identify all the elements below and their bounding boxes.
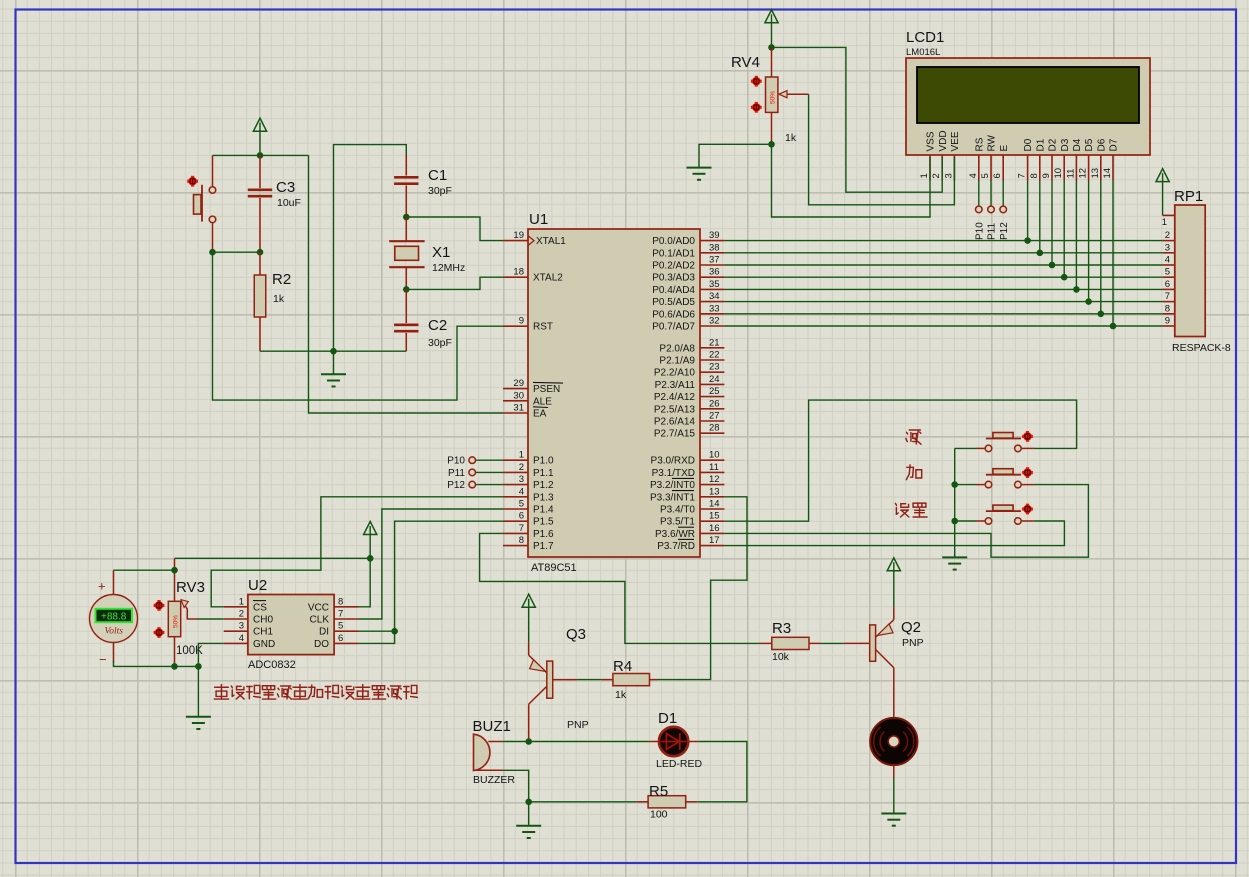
svg-text:30: 30 [513, 390, 524, 401]
pin 3 RP1 [1163, 252, 1175, 254]
svg-text:50%: 50% [770, 91, 777, 104]
svg-text:1: 1 [239, 596, 244, 607]
pin CH1 (3) U2 [224, 630, 248, 632]
lcd LCD1 body [906, 58, 1150, 155]
svg-text:P1.0: P1.0 [533, 456, 554, 467]
svg-text:U1: U1 [529, 211, 548, 228]
svg-text:RST: RST [533, 322, 553, 333]
pin P2.7/A15 (28) U1 [700, 432, 724, 434]
button JIA (increase) [976, 484, 985, 486]
svg-text:R3: R3 [772, 620, 791, 637]
pin P3.0/RXD (10) U1 [700, 459, 724, 461]
wire P3.5 net (U1 to button1 and Q3 drive) [724, 400, 1076, 521]
svg-text:35: 35 [709, 279, 720, 290]
wire P0.4 bus row [724, 288, 1162, 290]
pin P1.3 (4) U1 [503, 496, 528, 498]
wire P0.0 bus row [724, 240, 1162, 242]
svg-text:31: 31 [513, 403, 524, 414]
svg-text:7: 7 [1165, 291, 1170, 302]
svg-text:R5: R5 [649, 783, 668, 800]
wire R3 to Q2 base [821, 642, 844, 644]
svg-text:P0.1/AD1: P0.1/AD1 [652, 248, 695, 259]
svg-text:P2.0/A8: P2.0/A8 [659, 343, 695, 354]
svg-text:8: 8 [1029, 173, 1040, 178]
wire reset top rail [213, 154, 309, 156]
pin P0.4/AD4 (35) U1 [700, 288, 724, 290]
junction R5 row [525, 799, 532, 806]
ground (crystal circuit) [321, 374, 346, 386]
svg-text:11: 11 [1065, 169, 1076, 179]
svg-text:16: 16 [709, 523, 720, 534]
crystal X1 [389, 241, 424, 267]
svg-text:P0.6/AD6: P0.6/AD6 [652, 309, 695, 320]
capacitor C2 [405, 289, 407, 323]
svg-text:RESPACK-8: RESPACK-8 [1172, 342, 1231, 354]
pin P1.1 (2) U1 [503, 471, 528, 473]
wire R5 row left [529, 801, 637, 803]
power symbol VCC (Q2) [887, 558, 900, 571]
power symbol VCC (RP1) [1156, 169, 1169, 182]
svg-text:5: 5 [338, 621, 343, 632]
svg-text:RP1: RP1 [1174, 188, 1203, 205]
svg-text:P1.5: P1.5 [533, 517, 554, 528]
wire ground net vertical (C1 top) [334, 145, 407, 352]
svg-text:23: 23 [709, 362, 720, 373]
svg-text:P1.4: P1.4 [533, 505, 554, 516]
wire VCC rail to RV3 [175, 557, 371, 559]
junction RV3 bottom [171, 663, 178, 670]
pin P3.3/INT1 (13) U1 [700, 496, 724, 498]
svg-text:12MHz: 12MHz [432, 262, 465, 274]
junction DI/DO [391, 628, 398, 635]
junction D6/P0.6 [1098, 311, 1105, 318]
pin P1.6 (7) U1 [503, 532, 528, 534]
terminal P11 at LCD [990, 180, 992, 206]
svg-text:DO: DO [314, 639, 329, 650]
pin P0.0/AD0 (39) U1 [700, 240, 724, 242]
svg-text:P1.2: P1.2 [533, 480, 554, 491]
wire ground row (R2/C2 bottoms) [260, 350, 406, 352]
svg-text:C2: C2 [428, 317, 447, 334]
terminal P11 at U1 [476, 471, 503, 473]
pin P2.0/A8 (21) U1 [700, 347, 724, 349]
svg-text:+88.8: +88.8 [101, 611, 127, 622]
pin P2.3/A11 (24) U1 [700, 383, 724, 385]
target marker button2 [1022, 467, 1033, 478]
wire P0.7 bus row [724, 325, 1162, 327]
svg-text:P11: P11 [987, 223, 998, 240]
svg-text:LCD1: LCD1 [906, 29, 944, 46]
svg-text:Q3: Q3 [566, 626, 586, 643]
label jia (increase) [906, 465, 921, 480]
svg-text:33: 33 [709, 303, 720, 314]
pin RS (4) LCD1 [978, 155, 980, 181]
svg-text:1: 1 [919, 173, 930, 178]
pin P3.6/WR (16) U1 [700, 532, 724, 534]
svg-text:CH0: CH0 [253, 615, 273, 626]
junction button bottom [209, 249, 216, 256]
terminal P12 at LCD [1002, 180, 1004, 206]
svg-text:P12: P12 [999, 222, 1010, 240]
svg-text:9: 9 [519, 316, 524, 327]
wire XTAL2 net [406, 277, 503, 289]
button JIAN (decrease) [976, 447, 985, 449]
svg-text:2: 2 [931, 173, 942, 178]
wire XTAL1 net [406, 217, 503, 241]
pin P0.2/AD2 (37) U1 [700, 264, 724, 266]
svg-text:28: 28 [709, 423, 720, 434]
wire LCD D2 drop [1051, 181, 1053, 266]
svg-text:R2: R2 [272, 271, 291, 288]
pin 2 RP1 [1163, 240, 1175, 242]
svg-text:D7: D7 [1109, 138, 1120, 151]
wire EA net (VCC rail to U1 EA) [309, 155, 504, 413]
pin XTAL2 (18) U1 [503, 276, 528, 278]
svg-text:9: 9 [1041, 173, 1052, 178]
wire VDD net (RV4 top to LCD VDD) [772, 47, 943, 192]
junction X1 bottom / C2 top [403, 286, 410, 293]
junction D3/P0.3 [1061, 274, 1068, 281]
svg-text:P2.3/A11: P2.3/A11 [655, 380, 696, 391]
target marker RV3 b [154, 627, 165, 638]
svg-text:5: 5 [519, 499, 524, 510]
svg-text:P2.7/A15: P2.7/A15 [654, 429, 696, 440]
wire gnd lead (RV3) [197, 666, 199, 716]
svg-text:D1: D1 [1035, 138, 1046, 151]
pin VDD (2) LCD1 [941, 155, 943, 181]
pot RV3 [174, 558, 176, 601]
wire LCD D5 drop [1088, 181, 1090, 302]
wire LCD D3 drop [1063, 181, 1065, 278]
wire gnd lead (buzzer) [528, 802, 530, 826]
svg-text:PNP: PNP [567, 719, 589, 731]
svg-text:D4: D4 [1072, 138, 1083, 151]
svg-text:5: 5 [1165, 267, 1170, 278]
svg-text:D3: D3 [1060, 138, 1071, 151]
wire button-C3 junction row [213, 251, 260, 253]
junction D4/P0.4 [1073, 286, 1080, 293]
svg-text:3: 3 [943, 173, 954, 178]
capacitor C3 [259, 155, 261, 188]
target marker (reset button) [187, 176, 198, 187]
svg-text:ADC0832: ADC0832 [248, 659, 296, 671]
annotation text (chinese) [214, 685, 228, 699]
led D1 (LED-RED) [659, 727, 688, 756]
ic U2 body (ADC0832) [248, 595, 334, 655]
pin D3 (10) LCD1 [1063, 155, 1065, 181]
svg-text:E: E [999, 145, 1010, 152]
ground (RV4) [687, 168, 712, 180]
svg-text:34: 34 [709, 291, 720, 302]
svg-text:100K: 100K [176, 645, 203, 657]
svg-text:26: 26 [709, 398, 720, 409]
pin D0 (7) LCD1 [1027, 155, 1029, 181]
svg-text:P1.3: P1.3 [533, 492, 554, 503]
junction RV4 top [768, 44, 775, 51]
wire motor to ground [893, 765, 895, 778]
svg-text:PSEN: PSEN [533, 384, 560, 395]
power symbol VCC (RV4) [765, 10, 778, 23]
wire P1.6 net (U1 to R3) [480, 533, 760, 643]
ground (buttons) [942, 557, 967, 569]
svg-text:X1: X1 [432, 244, 450, 261]
svg-text:XTAL2: XTAL2 [533, 273, 563, 284]
pin 7 RP1 [1163, 301, 1175, 303]
svg-text:50%: 50% [173, 615, 180, 628]
svg-text:RW: RW [987, 134, 998, 151]
svg-text:P3.4/T0: P3.4/T0 [660, 505, 695, 516]
svg-text:Q2: Q2 [901, 619, 921, 636]
svg-text:PNP: PNP [902, 637, 924, 649]
pin EA (31) U1 [503, 412, 528, 414]
ic U1 body (AT89C51) [528, 229, 700, 557]
pin CLK (7) U2 [334, 618, 358, 620]
pin VEE (3) LCD1 [953, 155, 955, 181]
svg-text:XTAL1: XTAL1 [536, 236, 566, 247]
svg-text:P0.5/AD5: P0.5/AD5 [652, 297, 695, 308]
svg-text:RS: RS [974, 137, 985, 151]
svg-text:2: 2 [1165, 230, 1170, 241]
svg-text:27: 27 [709, 411, 720, 422]
buzzer BUZ1 [474, 734, 490, 770]
svg-text:7: 7 [338, 609, 343, 620]
ground (motor) [881, 814, 906, 826]
wire P3.3 net (U1 to R4) [657, 497, 747, 680]
svg-text:D6: D6 [1096, 138, 1107, 151]
svg-text:6: 6 [1165, 279, 1170, 290]
label shezhi (set) char1 [895, 503, 908, 517]
pin P0.7/AD7 (32) U1 [700, 325, 724, 327]
svg-text:P2.4/A12: P2.4/A12 [654, 392, 696, 403]
pin P3.4/T0 (14) U1 [700, 508, 724, 510]
terminal P10 at U1 [476, 459, 503, 461]
pin D1 (8) LCD1 [1039, 155, 1041, 181]
junction C1 bottom / X1 top [403, 214, 410, 221]
svg-text:P3.1/TXD: P3.1/TXD [652, 468, 695, 479]
wire P3.6 net (U1 to button2) [724, 485, 1088, 558]
target marker RV3 a [154, 600, 165, 611]
junction Q3 collector node [525, 738, 532, 745]
svg-text:D0: D0 [1023, 138, 1034, 151]
pin P0.5/AD5 (34) U1 [700, 301, 724, 303]
svg-text:P3.0/RXD: P3.0/RXD [651, 456, 695, 467]
pin PSEN (29) U1 [503, 388, 528, 390]
resistor R2 [259, 252, 261, 275]
svg-text:13: 13 [709, 486, 720, 497]
svg-text:29: 29 [513, 378, 524, 389]
svg-text:10: 10 [1053, 168, 1064, 179]
svg-text:8: 8 [1165, 303, 1170, 314]
junction VCC rail/arrow [367, 555, 374, 562]
pin DI (5) U2 [334, 630, 358, 632]
pin 8 RP1 [1163, 313, 1175, 315]
svg-text:U2: U2 [248, 577, 267, 594]
svg-text:1k: 1k [615, 689, 627, 701]
junction common/button2 [951, 481, 958, 488]
respack RP1 body [1175, 205, 1205, 337]
svg-text:P0.7/AD7: P0.7/AD7 [652, 322, 695, 333]
svg-text:CLK: CLK [310, 615, 330, 626]
target marker button3 [1022, 504, 1033, 515]
svg-text:CH1: CH1 [253, 627, 273, 638]
power symbol VCC (Q3) [522, 594, 535, 607]
svg-text:P3.7/RD: P3.7/RD [657, 541, 695, 552]
wire LCD D0 drop [1027, 181, 1029, 241]
svg-text:4: 4 [519, 486, 524, 497]
pin P1.2 (3) U1 [503, 484, 528, 486]
svg-text:13: 13 [1090, 168, 1101, 179]
svg-text:100: 100 [650, 809, 668, 821]
svg-text:37: 37 [709, 255, 720, 266]
pin D6 (13) LCD1 [1100, 155, 1102, 181]
label jian (decrease) [906, 430, 921, 444]
svg-text:D5: D5 [1084, 138, 1095, 151]
wire LCD D6 drop [1100, 181, 1102, 314]
svg-text:32: 32 [709, 316, 720, 327]
svg-text:D1: D1 [658, 710, 677, 727]
wire Q3 base to R4 [577, 679, 601, 681]
junction gnd row [195, 663, 202, 670]
svg-text:R4: R4 [613, 658, 632, 675]
pin CH0 (2) U2 [224, 618, 248, 620]
svg-text:10: 10 [709, 450, 720, 461]
wire DI/DO net (to U1 P1.5) [359, 521, 504, 631]
wire D1 to R5 right [697, 742, 747, 802]
svg-text:VEE: VEE [950, 131, 961, 151]
svg-text:VSS: VSS [926, 131, 937, 151]
svg-text:CS: CS [253, 602, 267, 613]
wire buttons common left [955, 447, 976, 449]
wire RV4 bottom to ground [699, 144, 772, 167]
motor (fan) [870, 718, 917, 765]
voltmeter body [113, 570, 115, 595]
pin 5 RP1 [1163, 276, 1175, 278]
pin GND (4) U2 [224, 642, 248, 644]
svg-text:LED-RED: LED-RED [656, 758, 703, 770]
svg-text:10k: 10k [772, 651, 790, 663]
svg-text:BUZZER: BUZZER [473, 774, 515, 786]
svg-text:C3: C3 [276, 179, 295, 196]
svg-text:Volts: Volts [104, 627, 123, 637]
svg-text:P2.1/A9: P2.1/A9 [659, 356, 695, 367]
pin P1.4 (5) U1 [503, 508, 528, 510]
junction reset rail / C3 top [257, 152, 264, 159]
pot RV4 wiper [784, 93, 809, 95]
svg-text:RV3: RV3 [176, 579, 205, 596]
wire LCD D7 drop [1112, 181, 1114, 327]
terminal P10 at LCD [978, 180, 980, 206]
pin D5 (12) LCD1 [1088, 155, 1090, 181]
wire P0.3 bus row [724, 276, 1162, 278]
svg-text:P10: P10 [447, 456, 465, 467]
transistor Q3 (PNP) [528, 643, 530, 656]
svg-text:3: 3 [519, 474, 524, 485]
wire P3.7 net (U1 to button3) [724, 521, 1064, 546]
svg-text:1k: 1k [273, 293, 285, 305]
wire P0.6 bus row [724, 313, 1162, 315]
svg-text:19: 19 [513, 230, 524, 241]
wire CS net (U2 CS to U1 P1.3) [211, 497, 503, 607]
svg-text:5: 5 [980, 173, 991, 178]
svg-text:P1.7: P1.7 [533, 541, 554, 552]
junction common/button3 [951, 518, 958, 525]
svg-text:17: 17 [709, 535, 720, 546]
svg-text:2: 2 [239, 609, 244, 620]
pin P0.1/AD1 (38) U1 [700, 252, 724, 254]
svg-text:1: 1 [1162, 217, 1167, 228]
junction D5/P0.5 [1085, 298, 1092, 305]
pin P2.5/A13 (26) U1 [700, 408, 724, 410]
pin P0.3/AD3 (36) U1 [700, 276, 724, 278]
junction D7/P0.7 [1110, 323, 1117, 330]
pin P2.4/A12 (25) U1 [700, 396, 724, 398]
svg-text:38: 38 [709, 242, 720, 253]
pin D7 (14) LCD1 [1112, 155, 1114, 181]
transistor Q2 (PNP) [893, 607, 895, 620]
svg-text:P2.2/A10: P2.2/A10 [654, 368, 696, 379]
svg-text:14: 14 [709, 499, 720, 510]
svg-text:3: 3 [239, 621, 244, 632]
svg-text:14: 14 [1102, 168, 1113, 179]
svg-text:VCC: VCC [308, 602, 329, 613]
wire meter- / RV3 bottom row [114, 661, 199, 666]
svg-text:4: 4 [1165, 255, 1170, 266]
svg-text:6: 6 [519, 511, 524, 522]
pin 6 RP1 [1163, 288, 1175, 290]
svg-text:P11: P11 [448, 468, 465, 479]
svg-text:P0.0/AD0: P0.0/AD0 [652, 236, 695, 247]
pin RST (9) U1 [503, 325, 528, 327]
svg-text:C1: C1 [428, 167, 447, 184]
pin P3.7/RD (17) U1 [700, 545, 724, 547]
svg-text:24: 24 [709, 374, 720, 385]
wire VEE net (RV4 wiper to LCD VEE) [809, 94, 955, 205]
pin D2 (9) LCD1 [1051, 155, 1053, 181]
pin P2.1/A9 (22) U1 [700, 359, 724, 361]
svg-text:30pF: 30pF [428, 337, 452, 349]
svg-text:10uF: 10uF [277, 197, 301, 209]
junction RV4 bottom [768, 141, 775, 148]
svg-text:+: + [98, 579, 106, 594]
svg-text:EA: EA [533, 409, 547, 420]
junction RV3 top / meter [171, 567, 178, 574]
pot RV4 [771, 47, 773, 77]
svg-text:P2.5/A13: P2.5/A13 [654, 404, 696, 415]
svg-text:18: 18 [513, 267, 524, 278]
junction D0/P0.0 [1024, 237, 1031, 244]
svg-text:DI: DI [319, 627, 329, 638]
svg-text:LM016L: LM016L [906, 47, 940, 58]
svg-text:36: 36 [709, 267, 720, 278]
junction D2/P0.2 [1049, 262, 1056, 269]
svg-text:11: 11 [709, 462, 719, 473]
pin XTAL1 (19) U1 [503, 240, 528, 242]
lcd screen [917, 67, 1139, 123]
svg-text:7: 7 [519, 523, 524, 534]
svg-text:P12: P12 [447, 480, 465, 491]
capacitor C1 [405, 155, 407, 176]
svg-text:9: 9 [1165, 316, 1170, 327]
svg-text:21: 21 [709, 337, 720, 348]
pin D4 (11) LCD1 [1075, 155, 1077, 181]
svg-text:P1.6: P1.6 [533, 529, 554, 540]
svg-text:GND: GND [253, 639, 275, 650]
svg-text:8: 8 [519, 535, 524, 546]
wire VSS net (RV4 bottom to LCD VSS) [772, 144, 931, 217]
svg-text:8: 8 [338, 596, 343, 607]
svg-text:1: 1 [519, 450, 524, 461]
svg-text:4: 4 [968, 173, 979, 178]
